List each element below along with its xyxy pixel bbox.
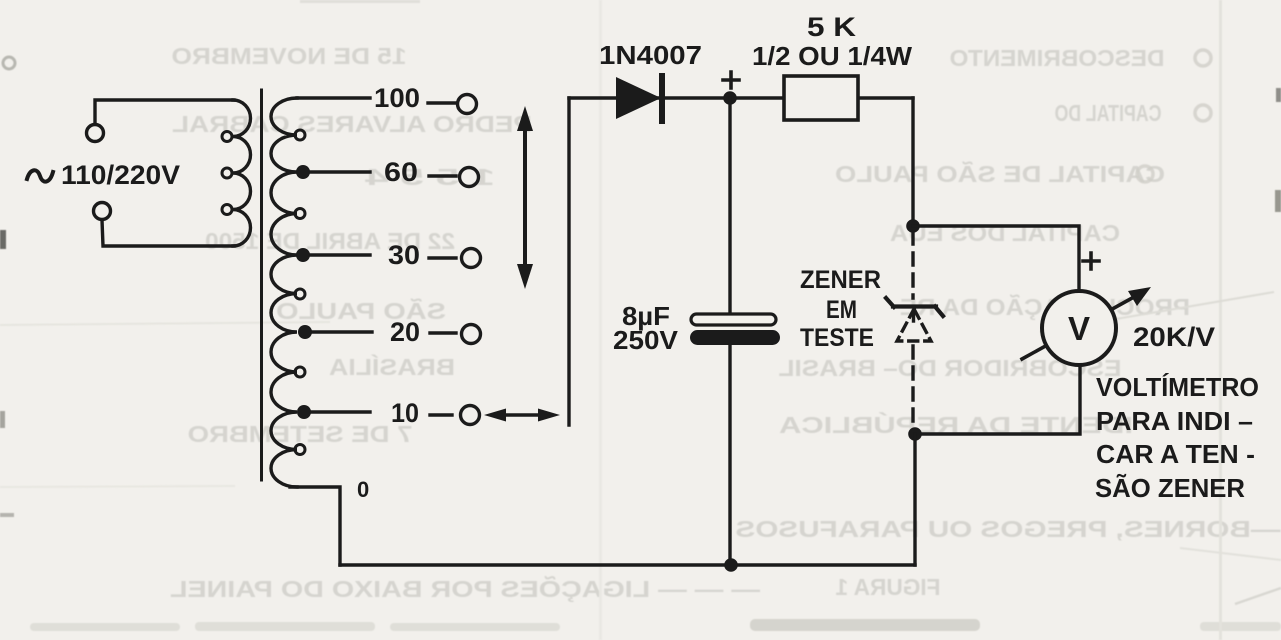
tap 10 junction dot (297, 405, 311, 419)
tap 100 dash (428, 101, 456, 104)
ghost row I: LIGACOES POR BAIXO DO PAINEL (mirrored) (170, 575, 760, 602)
diode D1 1N4007 triangle (616, 77, 661, 119)
voltmeter top wire (913, 226, 1079, 291)
tap 10 terminal circle (461, 406, 480, 425)
svg-text:CAR A TEN -: CAR A TEN - (1096, 439, 1255, 469)
ghost row D right: CAPITAL DOS EUA (mirrored) (890, 220, 1120, 246)
svg-text:250V: 250V (613, 325, 679, 355)
svg-text:CAPITAL DOS EUA: CAPITAL DOS EUA (890, 220, 1120, 246)
tap 20 junction dot (298, 325, 312, 339)
svg-text:VOLTÍMETRO: VOLTÍMETRO (1096, 372, 1259, 402)
ghost row B left: PEDRO ALVARES CABRAL (mirrored) (172, 111, 532, 137)
top rail right (858, 96, 913, 99)
junction dot zener bottom (908, 427, 922, 441)
bottom rail (340, 563, 915, 566)
svg-text:FIGURA 1: FIGURA 1 (835, 574, 940, 600)
ghost row E right: PROCLAMACAO DA REP (mirrored) (900, 293, 1190, 320)
svg-text:1N4007: 1N4007 (599, 40, 702, 70)
svg-text:20K/V: 20K/V (1133, 322, 1215, 352)
zener lead dash inside triangle (912, 311, 915, 321)
voltmeter needle (1022, 292, 1143, 359)
ghost row D left: 22 DE ABRIL DE 1500 (mirrored) (205, 228, 455, 254)
tap 20 terminal circle (462, 325, 481, 344)
svg-text:SÃO PAULO: SÃO PAULO (276, 297, 446, 324)
svg-text:100: 100 (374, 83, 420, 113)
selector vertical wire (567, 98, 570, 425)
terminal circle top (primary) (87, 125, 104, 142)
tap 60 dash (429, 174, 456, 177)
ghost right margin marks (1276, 88, 1281, 102)
svg-text:CAPITAL DE SÃO PAULO: CAPITAL DE SÃO PAULO (835, 160, 1165, 187)
ghost bleed-through text row A left: 15 DE NOVEMBRO (mirrored) (172, 43, 407, 69)
ghost row C right: CAPITAL DE SAO PAULO (mirrored) (835, 160, 1165, 187)
selector arrow (horizontal double arrow) (497, 413, 547, 417)
tap 20 wire (302, 330, 372, 333)
faint page creases (599, 0, 602, 640)
voltmeter bottom wire (915, 365, 1080, 434)
ghost left margin marks (3, 57, 15, 69)
right vertical wire (solid) (911, 98, 914, 226)
zener dashed lead bottom (911, 346, 914, 428)
ghost top edge speck (300, 0, 420, 3)
ghost row G left: 7 DE SETEMBRO (mirrored) (188, 421, 413, 447)
svg-text:5 K: 5 K (807, 12, 857, 42)
tap 60 junction dot (296, 165, 310, 179)
transformer T1 secondary winding (271, 98, 297, 487)
ghost row B right: CAPITAL DO (mirrored) (1055, 100, 1162, 126)
tap 30 dash (429, 256, 456, 259)
svg-text:0: 0 (357, 477, 369, 502)
transformer core (260, 90, 263, 480)
junction dot bottom rail at capacitor (724, 558, 738, 572)
voltmeter M1 circle (1042, 291, 1116, 365)
svg-text:ZENER: ZENER (800, 266, 881, 294)
svg-text:10: 10 (391, 398, 419, 428)
plus sign at filter node (723, 72, 739, 88)
svg-text:CAPITAL DO: CAPITAL DO (1055, 100, 1162, 126)
ghost row F left: BRASILIA (mirrored) (329, 353, 455, 380)
svg-text:SÃO ZENER: SÃO ZENER (1095, 473, 1245, 503)
capacitor C1 bottom lead (728, 345, 731, 565)
tap 60 wire (302, 170, 370, 173)
svg-text:—BORNES, PREGOS OU PARAFUSO: —BORNES, PREGOS OU PARAFUSOS (736, 516, 1281, 542)
secondary cusp loops (295, 130, 305, 140)
svg-text:60: 60 (384, 157, 418, 187)
top rail left (569, 96, 786, 99)
ghost row C left: 1554 (mirrored) (365, 164, 495, 190)
svg-text:BRASÍLIA: BRASÍLIA (329, 353, 455, 380)
AC tilde symbol (27, 170, 53, 181)
svg-text:110/220V: 110/220V (61, 160, 180, 190)
ghost row H: BORNES PREGOS OU PARAFUSOS (mirrored) (736, 516, 1281, 542)
tap 10 wire (302, 410, 370, 413)
junction dot zener top (906, 219, 920, 233)
svg-text:20: 20 (390, 317, 420, 347)
terminal circle bottom (primary) (94, 203, 111, 220)
tap 30 junction dot (296, 248, 310, 262)
primary cusp loops (222, 132, 232, 142)
svg-text:EM: EM (826, 296, 857, 324)
svg-text:PARA INDI –: PARA INDI – (1096, 406, 1253, 436)
capacitor C1 top plate (691, 314, 776, 325)
voltmeter plus sign (1083, 253, 1099, 269)
selector range arrow (vertical double arrow) (523, 124, 527, 271)
ghost row G right: ENTE DA REPUBLICA (mirrored) (779, 411, 1133, 438)
tap 100 wire (297, 96, 370, 99)
tap 30 wire (302, 253, 370, 256)
tap 30 terminal circle (462, 249, 481, 268)
ghost bottom edge band (30, 619, 1281, 631)
svg-text:DESCOBRIMENTO: DESCOBRIMENTO (950, 45, 1165, 71)
capacitor C1 bottom plate (690, 330, 780, 345)
voltmeter needle arrowhead (1128, 287, 1151, 306)
wire: primary bottom lead (102, 220, 234, 246)
zener DZ triangle (dashed) (897, 309, 931, 341)
capacitor C1 top lead (728, 98, 731, 313)
svg-text:TESTE: TESTE (800, 324, 874, 352)
tap 60 terminal circle (460, 168, 479, 187)
junction dot filter node (723, 91, 737, 105)
svg-text:V: V (1068, 310, 1090, 347)
svg-text:30: 30 (388, 240, 420, 270)
ghost row E left: SAO PAULO (mirrored) (276, 297, 446, 324)
tap 10 dash (430, 413, 452, 416)
wire: primary top lead (95, 100, 234, 124)
zener DZ cathode bar (886, 298, 943, 316)
wire zener bottom to rail (913, 434, 916, 565)
ghost row F right: DESCOBRIDOR DO BRASIL (mirrored) (779, 355, 1122, 381)
zener dashed lead top (911, 232, 914, 298)
tap 100 terminal circle (458, 95, 477, 114)
transformer T1 primary winding (233, 100, 251, 246)
tap 20 dash (430, 331, 456, 334)
ghost row I right: FIGURA 1 (mirrored) (835, 574, 940, 600)
wire: secondary bottom 0 lead (290, 487, 340, 565)
diode D1 cathode bar (659, 76, 665, 121)
svg-text:15 DE NOVEMBRO: 15 DE NOVEMBRO (172, 43, 407, 69)
ghost row A right: DESCOBRIMENTO (mirrored) (950, 45, 1165, 71)
svg-text:— — — LIGAÇÕES POR BAIXO: — — — LIGAÇÕES POR BAIXO DO PAINEL (170, 575, 760, 602)
svg-text:1/2 OU 1/4W: 1/2 OU 1/4W (752, 41, 912, 71)
resistor R1 body (784, 76, 858, 120)
